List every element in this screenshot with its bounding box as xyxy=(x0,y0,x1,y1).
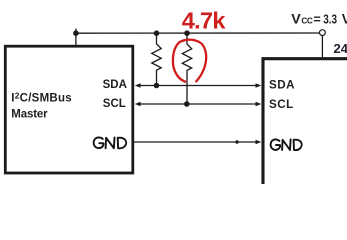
wire SDA xyxy=(139,85,257,87)
pin label GND (slave) xyxy=(271,139,302,150)
arrowhead SDA right xyxy=(256,83,262,87)
svg-text:3.3: 3.3 xyxy=(323,12,337,26)
resistor R2 SCL pull-up xyxy=(182,33,191,104)
svg-text:V: V xyxy=(291,11,301,27)
node R1 bottom junction on SDA xyxy=(154,83,160,89)
resistor R1 SDA pull-up xyxy=(152,33,161,85)
node R1 top junction xyxy=(154,30,160,36)
Vcc terminal circle xyxy=(320,30,326,36)
svg-text:V: V xyxy=(342,11,347,26)
svg-text:SCL: SCL xyxy=(269,98,294,111)
arrowhead GND right xyxy=(256,140,262,144)
svg-text:Master: Master xyxy=(11,108,48,120)
arrowhead SCL right xyxy=(256,102,262,106)
svg-text:CC: CC xyxy=(301,15,312,25)
svg-text:SDA: SDA xyxy=(103,79,127,91)
node junction above master xyxy=(73,30,79,36)
svg-text:I2C/SMBus: I2C/SMBus xyxy=(11,90,72,104)
annotation red circle around R2 xyxy=(173,40,206,82)
svg-text:24L: 24L xyxy=(334,41,347,56)
wire GND xyxy=(134,141,257,143)
svg-text:4.7k: 4.7k xyxy=(182,8,227,34)
svg-text:=: = xyxy=(313,12,320,26)
node R2 top junction xyxy=(184,30,190,36)
svg-text:SDA: SDA xyxy=(269,78,295,91)
arrowhead SCL left xyxy=(135,102,141,106)
wire Vcc bus (top horizontal) xyxy=(76,32,320,34)
wire SCL xyxy=(139,103,257,105)
wire Vcc terminal to slave block xyxy=(321,36,323,58)
arrowhead SDA left xyxy=(135,83,141,87)
node small dot on GND wire xyxy=(235,140,238,143)
pin label GND (master) xyxy=(94,137,127,148)
svg-text:SCL: SCL xyxy=(103,98,126,110)
node R2 bottom junction on SCL xyxy=(184,101,190,107)
wire master Vcc stub (vertical into master block) xyxy=(75,29,77,47)
label Vcc = 3.3 V xyxy=(291,11,347,27)
slave block (24xx device, partially visible) xyxy=(262,57,347,184)
I2C/SMBus Master block xyxy=(5,46,133,173)
